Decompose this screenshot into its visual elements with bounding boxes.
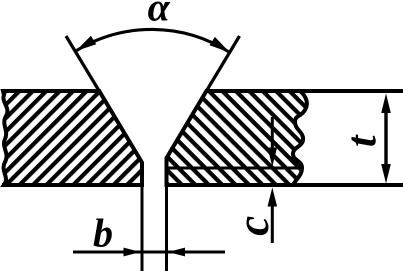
bottom surface line right segment [167,183,403,187]
c dimension upper arrowhead (pointing down to root face line) [268,148,278,167]
t dimension upper arrowhead (pointing up to top surface) [381,94,391,114]
arc arrowhead right [210,37,230,53]
svg-text:c: c [228,216,278,236]
left bevel extension line above surface [66,36,99,91]
svg-text:b: b [93,211,113,256]
top surface line left segment [2,89,99,93]
c dimension lower arrow shaft [271,205,274,243]
svg-text:t: t [339,134,385,147]
bottom surface line left segment [2,183,142,187]
right plate (hatched section, wavy break edge right) [167,91,307,185]
top surface line right segment [206,89,403,93]
t dimension line [384,105,387,172]
b dimension line (continuous through gap) [73,251,225,254]
root gap extension line right [165,187,168,271]
svg-text:α: α [148,0,171,30]
angle alpha arc [76,29,230,52]
c dimension upper arrow shaft [271,117,274,150]
t dimension lower arrowhead (pointing down to bottom surface) [381,164,391,184]
arc arrowhead left [76,36,97,51]
b dimension left arrowhead [124,248,141,257]
left plate (hatched section, wavy break edge left) [3,91,142,185]
root gap extension line left [141,187,144,271]
right bevel extension line above surface [206,36,239,91]
root face line (c) on right plate [165,167,301,170]
c dimension lower arrowhead (pointing up to bottom line) [268,188,278,207]
b dimension right arrowhead [168,248,185,257]
